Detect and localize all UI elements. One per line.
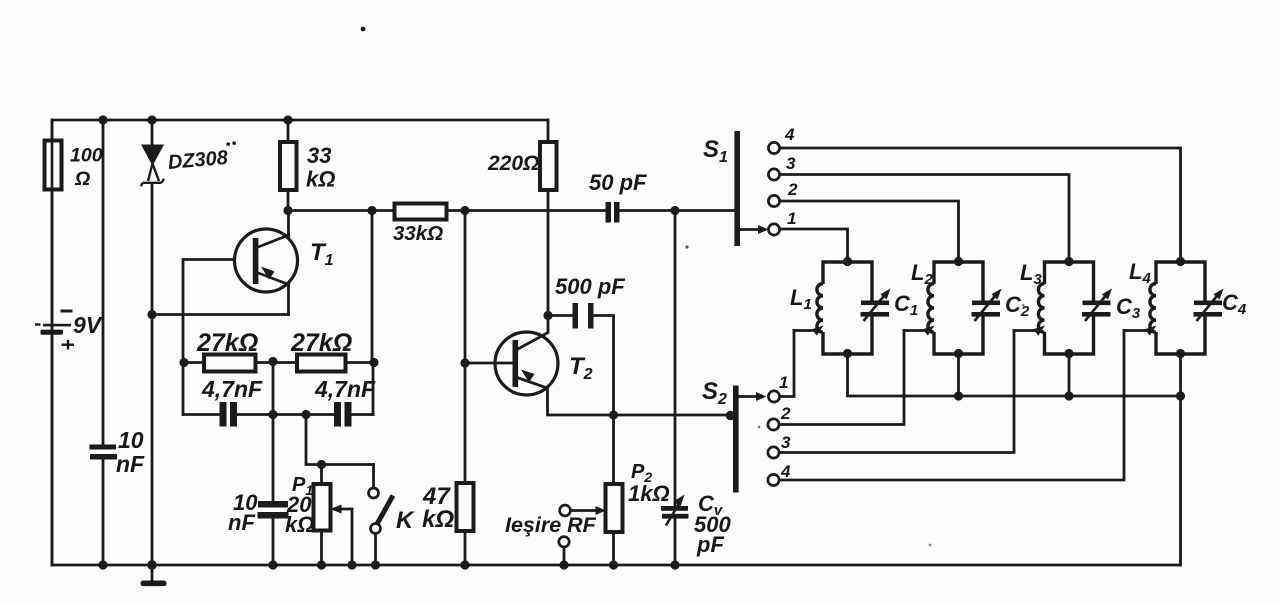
svg-text:kΩ: kΩ — [285, 512, 314, 537]
svg-text:1: 1 — [779, 373, 788, 392]
svg-text:9V: 9V — [73, 312, 103, 338]
svg-text:4: 4 — [780, 462, 791, 481]
svg-text:kΩ: kΩ — [306, 167, 335, 192]
svg-text:4: 4 — [784, 125, 795, 144]
svg-text:1: 1 — [787, 209, 796, 228]
svg-text:33kΩ: 33kΩ — [393, 222, 443, 245]
svg-text:10: 10 — [118, 427, 144, 453]
svg-text:50 pF: 50 pF — [589, 170, 647, 195]
svg-text:220Ω: 220Ω — [487, 152, 539, 175]
svg-text:2: 2 — [780, 404, 791, 423]
svg-text:kΩ: kΩ — [422, 506, 454, 533]
svg-text:nF: nF — [116, 451, 145, 477]
svg-text:Ieşire RF: Ieşire RF — [505, 513, 597, 537]
svg-text:nF: nF — [228, 510, 255, 535]
svg-text:Ω: Ω — [74, 168, 90, 190]
svg-text:3: 3 — [786, 154, 796, 173]
svg-text:3: 3 — [781, 433, 791, 452]
svg-text:27kΩ: 27kΩ — [290, 329, 352, 357]
svg-text:K: K — [396, 507, 415, 534]
svg-text:100: 100 — [70, 145, 103, 167]
svg-text:2: 2 — [787, 180, 798, 199]
svg-text:33: 33 — [307, 143, 331, 168]
svg-text:pF: pF — [696, 532, 724, 557]
svg-text:4,7nF: 4,7nF — [314, 376, 376, 402]
svg-text:500 pF: 500 pF — [555, 274, 625, 299]
svg-text:27kΩ: 27kΩ — [196, 329, 258, 357]
svg-text:4,7nF: 4,7nF — [201, 376, 263, 402]
svg-text:1kΩ: 1kΩ — [628, 481, 670, 506]
